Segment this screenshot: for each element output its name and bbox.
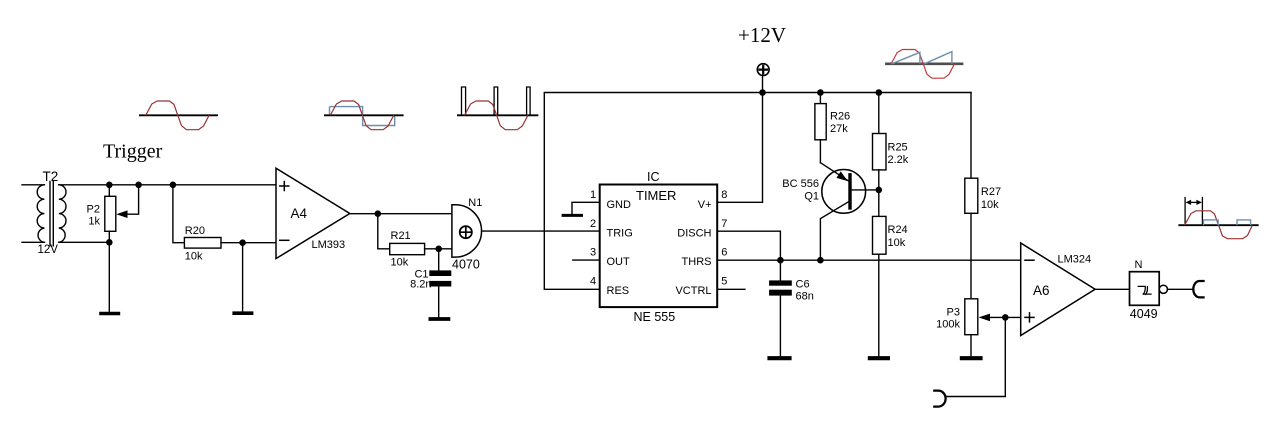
label A6 plus input	[1025, 313, 1034, 322]
svg-text:R27: R27	[981, 186, 1001, 198]
svg-text:THRS: THRS	[682, 256, 712, 268]
node P2 bottom	[106, 239, 113, 246]
node A4 out	[375, 210, 382, 217]
ground R20	[234, 243, 251, 314]
IC 555 box	[600, 185, 718, 308]
svg-text:R25: R25	[888, 141, 908, 153]
node R20 out	[239, 239, 246, 246]
arrow P3 wiper	[979, 314, 990, 322]
node rail pin8	[759, 89, 766, 96]
node Q1 base divider	[876, 187, 883, 194]
svg-text:R20: R20	[185, 225, 205, 237]
svg-text:68n: 68n	[796, 290, 814, 302]
node rail R26	[817, 89, 824, 96]
svg-text:TRIG: TRIG	[607, 227, 633, 239]
svg-text:LM324: LM324	[1058, 254, 1092, 266]
svg-text:T2: T2	[43, 169, 59, 184]
svg-text:12V: 12V	[38, 244, 59, 256]
svg-text:3: 3	[590, 247, 596, 259]
svg-text:GND: GND	[607, 199, 632, 211]
pin 1 GND	[563, 202, 600, 215]
+12V supply symbol	[757, 64, 769, 93]
svg-text:5: 5	[721, 275, 727, 287]
resistor R20	[173, 185, 243, 248]
ground C1	[430, 317, 448, 321]
svg-text:10k: 10k	[981, 199, 999, 211]
svg-text:V+: V+	[698, 199, 712, 211]
pin 6 THRS wire to A6	[717, 259, 1021, 261]
svg-text:6: 6	[721, 247, 727, 259]
svg-text:LM393: LM393	[312, 239, 346, 251]
connector input	[934, 391, 945, 407]
svg-text:8: 8	[721, 189, 727, 201]
op-amp A4	[276, 168, 350, 258]
svg-text:100k: 100k	[936, 319, 960, 331]
wire A6 out	[1095, 288, 1129, 290]
ground P3	[962, 356, 981, 360]
svg-text:TIMER: TIMER	[636, 188, 676, 203]
label A4 minus input	[280, 239, 289, 241]
transistor Q1	[820, 163, 878, 261]
node P2 wiper pick	[135, 182, 142, 189]
label A6 minus input	[1025, 259, 1034, 261]
svg-text:R26: R26	[830, 111, 850, 123]
svg-text:NE 555: NE 555	[634, 310, 676, 324]
wire top secondary to A4 +	[59, 184, 276, 186]
svg-text:DISCH: DISCH	[677, 227, 711, 239]
gate N1	[452, 205, 482, 257]
capacitor C1	[429, 249, 451, 317]
pin 3 OUT	[573, 259, 600, 261]
wire to A4 minus	[243, 242, 276, 244]
ground R24	[870, 356, 888, 360]
wire +12V rail	[544, 93, 971, 290]
pin 5 VCTRL	[717, 288, 745, 290]
resistor R24	[873, 190, 887, 356]
svg-text:P3: P3	[947, 307, 960, 319]
wire bottom secondary to P2	[59, 241, 110, 243]
inverter N hysteresis mark	[1138, 286, 1151, 294]
svg-text:1: 1	[590, 189, 596, 201]
node R20 top	[170, 182, 177, 189]
svg-text:N: N	[1135, 259, 1143, 271]
svg-text:IC: IC	[647, 170, 660, 184]
svg-text:Q1: Q1	[804, 191, 819, 203]
wire bubble to connector	[1168, 288, 1193, 290]
svg-text:4070: 4070	[452, 258, 480, 272]
resistor R26	[815, 93, 826, 163]
svg-text:C6: C6	[796, 279, 810, 291]
svg-text:BC 556: BC 556	[782, 178, 819, 190]
pin 8 V+	[717, 93, 762, 203]
potentiometer P3	[965, 299, 978, 356]
label A4 plus input	[280, 182, 289, 191]
inverter N box	[1130, 272, 1160, 306]
wire gate out to TRIG	[482, 230, 600, 232]
svg-text:A6: A6	[1033, 283, 1050, 298]
svg-text:10k: 10k	[185, 251, 203, 263]
resistor R25	[873, 93, 887, 190]
waveform icon sine+saw (Q1 area)	[885, 50, 963, 79]
resistor R27	[965, 93, 978, 299]
svg-text:4: 4	[590, 275, 596, 287]
arrow P2 wiper	[116, 210, 127, 218]
ground P2	[101, 242, 118, 313]
transformer T2	[22, 182, 66, 246]
waveform icon comparator output (A6 area)	[1178, 197, 1258, 239]
resistor R21	[378, 214, 452, 255]
connector output	[1193, 281, 1203, 297]
ground C6	[770, 356, 790, 360]
svg-text:P2: P2	[87, 204, 100, 216]
svg-text:VCTRL: VCTRL	[675, 285, 711, 297]
capacitor C6	[769, 260, 792, 356]
wire P2 wiper	[127, 185, 139, 214]
svg-text:7: 7	[721, 218, 727, 230]
node Q1 collector THRS	[817, 257, 824, 264]
svg-text:1k: 1k	[88, 216, 100, 228]
arrow Q1 emitter	[836, 171, 847, 181]
node A6 plus	[1002, 314, 1009, 321]
svg-text:A4: A4	[291, 206, 308, 221]
svg-text:OUT: OUT	[607, 256, 631, 268]
svg-text:N1: N1	[468, 197, 482, 209]
node DISCH-THRS	[777, 257, 784, 264]
svg-text:27k: 27k	[830, 123, 848, 135]
pin 7 DISCH	[717, 231, 780, 260]
potentiometer P2	[105, 185, 116, 243]
svg-text:Trigger: Trigger	[103, 140, 163, 162]
gate N1 xor mark	[460, 226, 472, 238]
svg-text:R24: R24	[888, 224, 908, 236]
svg-text:4049: 4049	[1130, 307, 1158, 321]
svg-text:10k: 10k	[391, 257, 409, 269]
svg-text:RES: RES	[607, 285, 630, 297]
inverter output bubble	[1159, 285, 1167, 293]
waveform icon clipped sine (A4 out)	[324, 101, 404, 130]
node P2 top	[106, 182, 113, 189]
op-amp A6	[1021, 243, 1095, 336]
node rail R25	[876, 89, 883, 96]
waveform icon pulses (gate out)	[457, 87, 538, 130]
svg-text:10k: 10k	[888, 237, 906, 249]
svg-text:2.2k: 2.2k	[888, 154, 909, 166]
node C1	[435, 246, 442, 253]
svg-text:8.2n: 8.2n	[410, 278, 431, 290]
svg-text:R21: R21	[391, 230, 411, 242]
wire to input connector	[945, 317, 1005, 396]
svg-text:+12V: +12V	[738, 23, 786, 47]
wire P3 wiper to A6 plus	[989, 316, 1021, 318]
svg-text:2: 2	[590, 218, 596, 230]
wire A4 out to gate	[350, 213, 452, 215]
waveform icon sine (input)	[139, 101, 218, 130]
